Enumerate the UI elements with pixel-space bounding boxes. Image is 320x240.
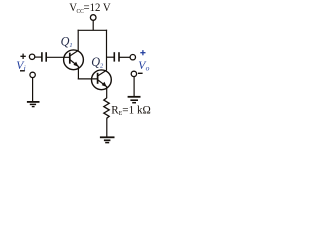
wire rail to Q1 collector [77,30,79,51]
wire Q1 emitter down [77,66,79,79]
wire output bottom terminal to ground [133,77,135,96]
transistor Q1 [64,50,84,70]
transistor Q2 [92,70,112,90]
Q1 emitter arrowhead [73,62,78,67]
wire Q2 emitter down to resistor [106,86,108,98]
ground (input side) [27,102,40,107]
ground (output side) [128,97,141,103]
svg-text:Q2: Q2 [91,55,104,69]
Q2 emitter arrowhead [102,82,107,87]
capacitor C1 plates [42,52,46,62]
wire input bottom terminal to ground [32,78,34,102]
wire Q1 emitter to Q2 base [78,78,98,80]
wire output tap to capacitor C2 [107,56,115,58]
wire resistor to ground [106,118,108,137]
svg-text:VCC=12 V: VCC=12 V [69,2,111,16]
input bottom terminal circle [30,72,35,77]
resistor RE zigzag [104,98,109,118]
output + sign [140,50,145,55]
wire terminal to capacitor C1 [35,56,42,58]
svg-text:RE=1 kΩ: RE=1 kΩ [111,103,151,117]
output bottom terminal circle [131,71,136,76]
svg-text:Q1: Q1 [61,35,73,49]
input + sign [20,54,25,59]
wire capacitor C2 to output terminal [119,56,130,58]
wire Vcc terminal to rail [92,20,94,30]
wire capacitor to Q1 base [46,56,70,58]
wire rail to Q2 collector (output tap line) [106,30,108,71]
input - sign [20,70,25,72]
output top terminal circle [130,55,135,60]
input top terminal circle [29,54,34,59]
output - sign [138,72,143,74]
ground (bottom, below RE) [100,137,115,142]
capacitor C2 plates [114,52,119,61]
Vcc terminal circle [90,15,96,21]
supply label Vcc=12 V [69,2,111,16]
svg-text:Vo: Vo [138,59,149,73]
wire top rail [78,29,108,31]
